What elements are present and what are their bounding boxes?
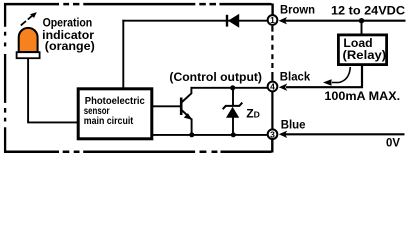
- junction: zener on 0V line: [231, 132, 236, 137]
- zener diode ZD: [223, 88, 243, 136]
- wire: zener top lead: [232, 88, 234, 107]
- wire: blue 0V line right of terminal 3: [281, 133, 405, 135]
- label: Operation indicator (orange): [42, 16, 95, 53]
- terminal 4: [268, 82, 278, 92]
- wire: load top lead: [361, 21, 363, 34]
- enclosure top-right corner down to terminal 1: [271, 4, 273, 15]
- arrowhead into terminal 4: [279, 84, 287, 91]
- enclosure right border: solid segment between terminal 4 and terminal 3: [271, 92, 273, 130]
- svg-text:100mA MAX.: 100mA MAX.: [324, 89, 400, 103]
- svg-text:main circuit: main circuit: [84, 116, 134, 127]
- arrowhead into terminal 3: [279, 131, 287, 138]
- transistor Q1 (NPN): [181, 93, 192, 120]
- wire: bottom 0V line from box to terminal 3: [151, 134, 267, 136]
- diode D1 (reverse polarity protection): [227, 14, 239, 28]
- svg-text:(orange): (orange): [45, 39, 95, 53]
- zener cathode bar with bent ends: [223, 103, 243, 110]
- svg-text:(Relay): (Relay): [343, 48, 387, 62]
- terminal 3: [268, 129, 278, 139]
- enclosure top border (chain line): [4, 3, 272, 6]
- zener triangle (anode, pointing up): [226, 107, 239, 118]
- wire: emitter down to 0V line: [191, 119, 193, 136]
- svg-text:0V: 0V: [386, 136, 401, 150]
- wire: brown supply line right of terminal 1: [281, 20, 406, 22]
- LED indicator dome (orange): [19, 28, 38, 52]
- enclosure bottom border (chain line): [4, 151, 272, 154]
- wire: load bottom lead down and left to terminal 4: [286, 65, 362, 88]
- svg-text:ZD: ZD: [246, 106, 260, 120]
- photoelectric sensor main circuit box U1: [78, 89, 152, 139]
- LED emission arrow (short stroke): [21, 21, 26, 25]
- enclosure left border (chain line): [4, 3, 6, 153]
- enclosure right border: dashed segment between terminal 1 and terminal 4: [271, 26, 273, 81]
- load (relay) box: [338, 35, 386, 65]
- transistor Q1 base wire: [151, 105, 181, 107]
- terminal 1: [268, 15, 278, 25]
- wire: collector up to control output line: [190, 87, 192, 94]
- svg-text:Black: Black: [280, 72, 311, 84]
- junction: load tap on supply line: [359, 18, 364, 23]
- svg-text:12 to 24VDC: 12 to 24VDC: [331, 4, 405, 18]
- LED emission arrow (with head): [28, 12, 37, 19]
- svg-text:Blue: Blue: [281, 120, 306, 132]
- wire: LED lead to main circuit box: [27, 121, 77, 123]
- enclosure bottom-right corner up to terminal 3: [271, 140, 273, 153]
- junction: zener on control output line: [230, 85, 235, 90]
- svg-text:1: 1: [270, 15, 275, 25]
- wire: control output line to terminal 4: [191, 87, 268, 89]
- svg-text:4: 4: [270, 82, 275, 92]
- curved annotation arrow (load current): [323, 67, 350, 86]
- junction: emitter on 0V line: [189, 132, 194, 137]
- wire: vertical from corner down into main circuit box: [122, 20, 124, 89]
- svg-text:(Control output): (Control output): [169, 72, 262, 84]
- wire: LED lead down: [27, 58, 29, 122]
- wire: zener bottom lead: [232, 118, 234, 136]
- svg-text:3: 3: [270, 129, 275, 139]
- svg-text:Brown: Brown: [280, 5, 315, 17]
- LED base: [17, 52, 40, 58]
- arrowhead into terminal 1: [279, 17, 287, 24]
- wire: top supply wire from corner to terminal 1 (through diode): [122, 20, 267, 22]
